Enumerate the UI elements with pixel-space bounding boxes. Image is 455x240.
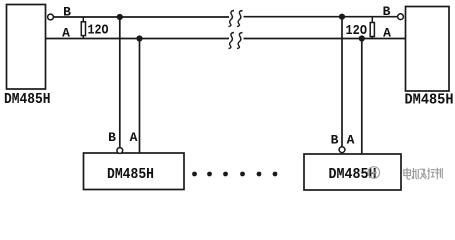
device box U2 (right DM485H) [406, 7, 450, 92]
device box U4 (bottom-right DM485H) [304, 154, 401, 190]
svg-text:B: B [383, 4, 391, 19]
wire U3 pin A drop [139, 39, 141, 154]
watermark text 电机及控制 [404, 168, 443, 180]
svg-text:DM485H: DM485H [107, 166, 154, 183]
wire bus A (bottom line, right segment) [244, 38, 406, 40]
wire bus A (bottom line, left segment) [46, 38, 229, 40]
device box U1 (left DM485H) [7, 5, 46, 90]
junction dot node B2 [339, 14, 345, 20]
junction dot node A1 [136, 35, 142, 41]
svg-text:A: A [130, 130, 138, 145]
char 制 [435, 168, 442, 180]
break symbol on bus A [229, 33, 243, 49]
junction dot node A2 [359, 35, 365, 41]
junction dot node B1 [117, 14, 123, 20]
svg-text:B: B [63, 4, 71, 19]
watermark logo circle [368, 167, 380, 179]
terminal circle U4 pin B [339, 147, 345, 153]
ellipsis dots (more devices) [192, 172, 277, 177]
char 及 [420, 169, 427, 179]
svg-text:12O: 12O [88, 22, 109, 38]
wire stub U4 pin B [341, 153, 343, 154]
svg-text:A: A [62, 25, 70, 40]
wire U4 pin A drop [361, 39, 363, 155]
wire U4 pin B drop [341, 17, 343, 147]
svg-text:A: A [383, 26, 391, 41]
char 控 [427, 168, 435, 179]
svg-text:DM485H: DM485H [4, 91, 51, 108]
resistor R2 body [370, 23, 374, 37]
resistor R1 body [81, 22, 85, 36]
terminal circle U2 pin B [398, 14, 404, 20]
svg-text:B: B [108, 130, 116, 145]
wire bus B (top line, right segment) [244, 16, 398, 18]
resistor R2 lead top [371, 17, 373, 23]
wire U3 pin B drop [119, 17, 121, 148]
resistor R2 lead bottom [371, 37, 373, 39]
svg-text:B: B [331, 132, 339, 147]
device box U3 (bottom-left DM485H) [84, 153, 185, 190]
char 机 [412, 168, 419, 179]
resistor R1 lead bottom [82, 36, 84, 39]
terminal circle U3 pin B [117, 148, 123, 154]
char 电 [404, 168, 411, 179]
break symbol on bus B [229, 11, 243, 27]
resistor R1 lead top [82, 17, 84, 22]
svg-text:DM485H: DM485H [405, 92, 454, 109]
terminal circle U1 pin B [48, 14, 54, 20]
svg-text:A: A [347, 132, 355, 147]
wire bus B (top line, left segment) [54, 16, 230, 18]
